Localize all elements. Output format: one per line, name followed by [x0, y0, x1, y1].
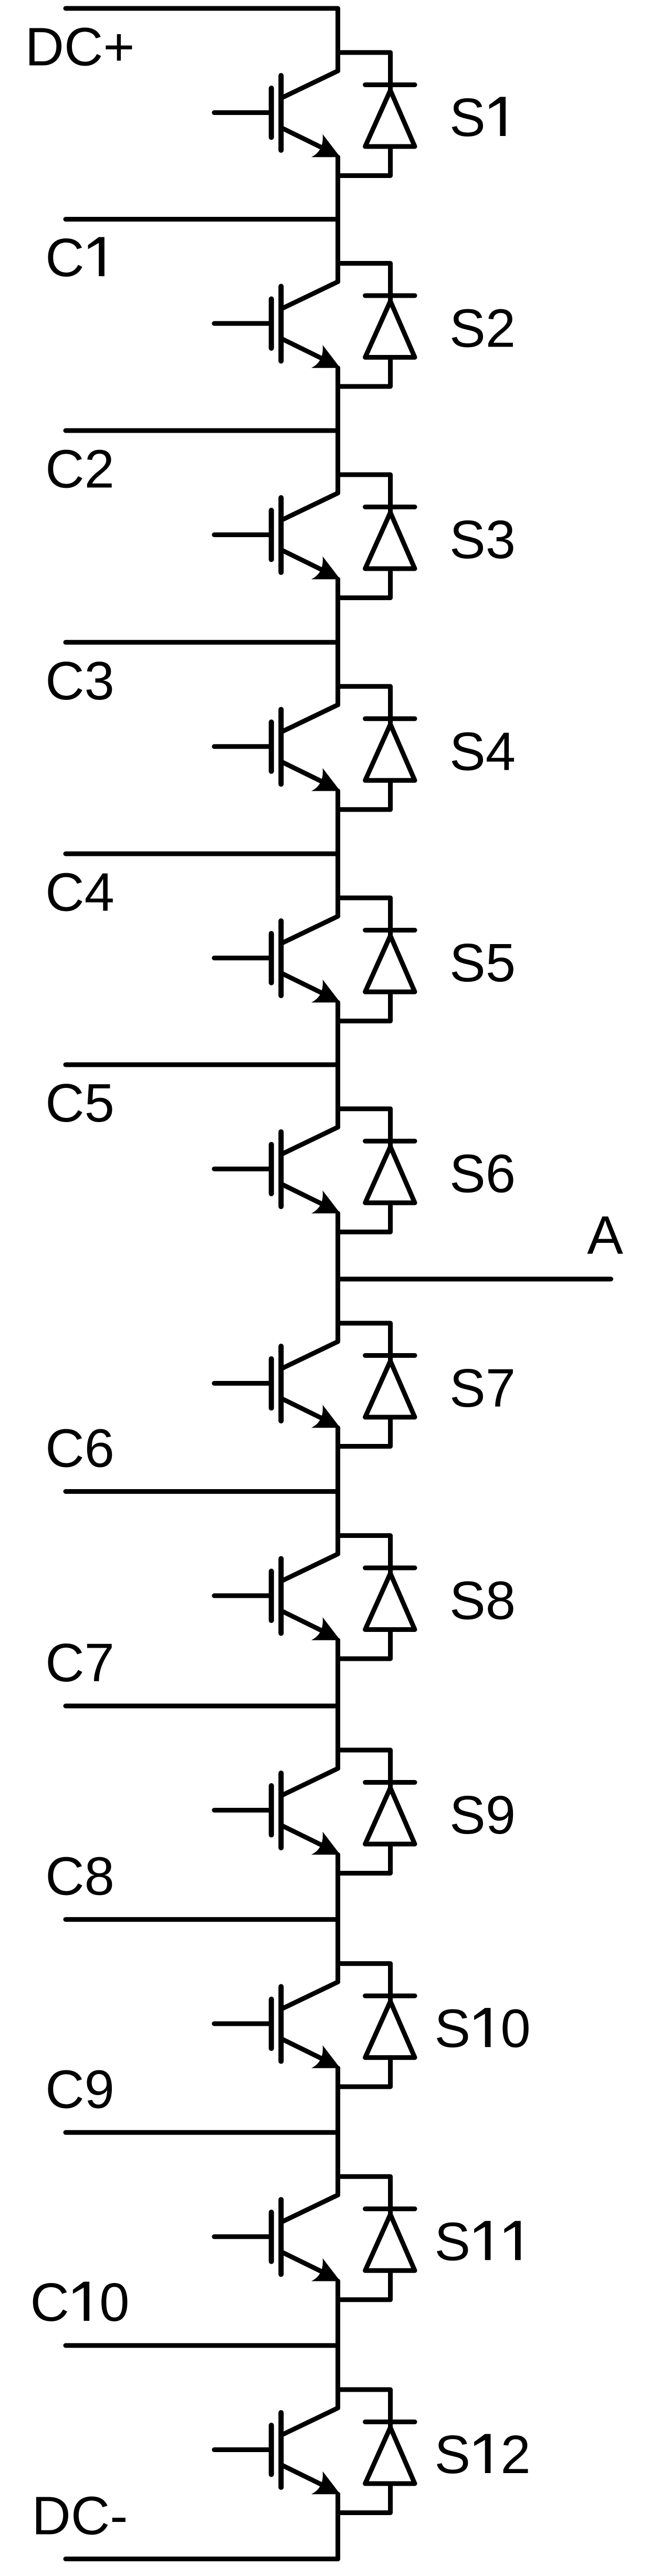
emitter arrowhead of S12 — [311, 2472, 340, 2495]
emitter arrowhead of S7 — [311, 1405, 340, 1428]
emitter arrowhead of S2 — [311, 345, 340, 368]
diode D11 branch top wire — [338, 2176, 391, 2215]
wire: bus segment below S4 — [336, 791, 340, 916]
diode D12 branch top wire — [338, 2390, 391, 2428]
transistor S8 (IGBT) — [214, 1554, 338, 1635]
svg-text:S9: S9 — [449, 1785, 516, 1845]
emitter arrowhead of S9 — [311, 1832, 340, 1855]
svg-text:C: C — [30, 2272, 69, 2332]
diode D9 branch bottom wire — [338, 1844, 391, 1873]
wire: bus segment below S7 — [336, 1428, 340, 1554]
node DC- rail wire — [66, 2557, 338, 2561]
node C5 tap wire — [66, 1062, 338, 1067]
svg-text:DC+: DC+ — [25, 17, 135, 77]
svg-text:C7: C7 — [45, 1632, 114, 1693]
svg-text:A: A — [587, 1205, 623, 1265]
svg-text:S2: S2 — [449, 298, 516, 359]
diode D6 branch top wire — [338, 1109, 391, 1147]
diode D1 triangle — [365, 90, 415, 146]
svg-text:S4: S4 — [449, 721, 516, 781]
node C4 tap wire — [66, 852, 338, 856]
diode D11 cathode bar — [365, 2206, 415, 2211]
node C2 tap wire — [66, 428, 338, 433]
diode D3 triangle — [365, 512, 415, 569]
diode D2 triangle — [365, 301, 415, 358]
diode D4 branch top wire — [338, 686, 391, 725]
svg-text:C2: C2 — [45, 439, 114, 499]
emitter arrowhead of S8 — [311, 1617, 340, 1640]
svg-text:C6: C6 — [45, 1418, 114, 1479]
emitter arrowhead of S10 — [311, 2045, 340, 2068]
diode D8 branch bottom wire — [338, 1630, 391, 1659]
diode D2 cathode bar — [365, 294, 415, 298]
node C7 tap wire — [66, 1704, 338, 1709]
node C8 tap wire — [66, 1917, 338, 1922]
svg-text:S5: S5 — [449, 933, 516, 993]
diode D11 branch bottom wire — [338, 2270, 391, 2300]
diode D9 cathode bar — [365, 1780, 415, 1785]
svg-text:S: S — [449, 87, 486, 148]
svg-text:0: 0 — [99, 2272, 129, 2332]
diode D7 branch bottom wire — [338, 1417, 391, 1447]
emitter arrowhead of S6 — [311, 1190, 340, 1213]
diode D8 triangle — [365, 1574, 415, 1630]
node C3 tap wire — [66, 640, 338, 645]
diode D4 branch bottom wire — [338, 780, 391, 810]
svg-text:S8: S8 — [449, 1570, 516, 1631]
transistor S5 (IGBT) — [214, 916, 338, 997]
emitter arrowhead of S5 — [311, 980, 340, 1003]
diode D3 cathode bar — [365, 505, 415, 509]
diode D12 cathode bar — [365, 2420, 415, 2424]
diode D5 branch bottom wire — [338, 992, 391, 1021]
svg-text:C3: C3 — [45, 651, 114, 711]
wire: bus segment below S6 — [336, 1213, 340, 1342]
node C10 tap wire — [66, 2343, 338, 2348]
svg-text:2: 2 — [500, 2424, 530, 2485]
svg-text:C4: C4 — [45, 862, 114, 923]
diode D6 cathode bar — [365, 1139, 415, 1144]
node C9 tap wire — [66, 2130, 338, 2135]
transistor S9 (IGBT) — [214, 1768, 338, 1849]
diode D4 triangle — [365, 724, 415, 780]
transistor S6 (IGBT) — [214, 1127, 338, 1208]
diode D1 branch top wire — [338, 53, 391, 91]
wire: bus segment below S11 — [336, 2281, 340, 2408]
diode D2 branch bottom wire — [338, 358, 391, 387]
diode D5 triangle — [365, 936, 415, 992]
svg-text:S: S — [434, 1998, 470, 2059]
wire: bus segment below S5 — [336, 1002, 340, 1127]
diode D12 branch bottom wire — [338, 2484, 391, 2513]
transistor S3 (IGBT) — [214, 493, 338, 574]
emitter arrowhead of S1 — [311, 134, 340, 158]
node A output wire — [338, 1277, 611, 1282]
diode D8 branch top wire — [338, 1536, 391, 1574]
svg-text:C9: C9 — [45, 2059, 114, 2119]
diode D1 cathode bar — [365, 82, 415, 87]
diode D7 branch top wire — [338, 1323, 391, 1362]
svg-text:C5: C5 — [45, 1073, 114, 1133]
svg-text:0: 0 — [500, 1998, 530, 2059]
svg-text:S7: S7 — [449, 1358, 516, 1418]
node DC+ rail wire — [66, 8, 338, 71]
diode D12 triangle — [365, 2427, 415, 2484]
transistor S2 (IGBT) — [214, 282, 338, 363]
transistor S10 (IGBT) — [214, 1982, 338, 2063]
svg-text:S: S — [434, 2211, 470, 2271]
diode D10 cathode bar — [365, 1994, 415, 1998]
svg-text:C: C — [45, 227, 84, 288]
diode D11 triangle — [365, 2214, 415, 2270]
svg-text:C8: C8 — [45, 1846, 114, 1907]
diode D10 triangle — [365, 2002, 415, 2058]
transistor S1 (IGBT) — [214, 71, 338, 152]
diode D3 branch bottom wire — [338, 569, 391, 598]
diode D9 triangle — [365, 1788, 415, 1844]
svg-text:S3: S3 — [449, 509, 516, 570]
transistor S12 (IGBT) — [214, 2408, 338, 2489]
node C1 tap wire — [66, 217, 338, 222]
diode D2 branch top wire — [338, 264, 391, 302]
diode D5 cathode bar — [365, 928, 415, 933]
wire: bus segment below S8 — [336, 1640, 340, 1769]
svg-text:S: S — [434, 2424, 470, 2485]
wire: bus segment below S1 — [336, 157, 340, 282]
diode D9 branch top wire — [338, 1750, 391, 1788]
diode D4 cathode bar — [365, 716, 415, 721]
diode D10 branch top wire — [338, 1964, 391, 2002]
transistor S11 (IGBT) — [214, 2195, 338, 2276]
emitter arrowhead of S11 — [311, 2258, 340, 2281]
diode D10 branch bottom wire — [338, 2058, 391, 2087]
wire: bus segment below S3 — [336, 579, 340, 705]
diode D3 branch top wire — [338, 475, 391, 513]
svg-text:DC-: DC- — [32, 2486, 128, 2546]
node C6 tap wire — [66, 1489, 338, 1494]
wire: bus segment below S10 — [336, 2068, 340, 2195]
diode D1 branch bottom wire — [338, 146, 391, 176]
transistor S7 (IGBT) — [214, 1342, 338, 1422]
emitter arrowhead of S4 — [311, 768, 340, 791]
diode D7 triangle — [365, 1361, 415, 1417]
svg-text:S6: S6 — [449, 1144, 516, 1204]
wire: bus segment below S2 — [336, 368, 340, 494]
emitter arrowhead of S3 — [311, 557, 340, 580]
diode D8 cathode bar — [365, 1566, 415, 1570]
diode D7 cathode bar — [365, 1353, 415, 1358]
diode D6 branch bottom wire — [338, 1203, 391, 1232]
transistor S4 (IGBT) — [214, 705, 338, 786]
wire: bus segment below S12 — [336, 2494, 340, 2559]
diode D6 triangle — [365, 1147, 415, 1203]
diode D5 branch top wire — [338, 898, 391, 936]
wire: bus segment below S9 — [336, 1855, 340, 1982]
